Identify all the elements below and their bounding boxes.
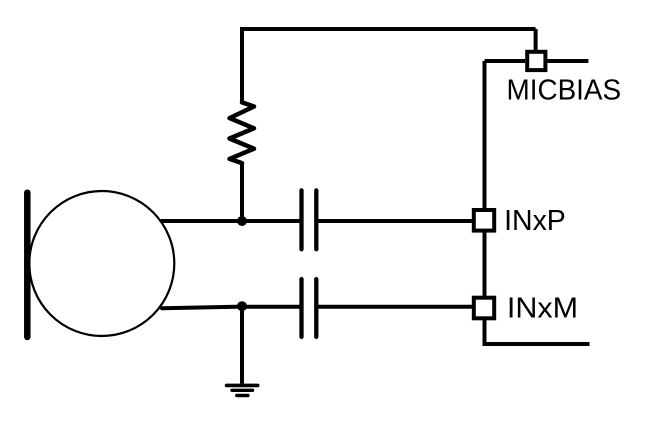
wire: drop down into MICBIAS pin square xyxy=(534,29,538,50)
ground symbol bar 2 xyxy=(232,389,253,392)
wire: capacitor C1 to INxP square xyxy=(316,219,472,223)
microphone MK1 element bar xyxy=(24,193,31,337)
capacitor C2 left plate xyxy=(299,279,303,337)
wire: junction B to capacitor C2 left plate xyxy=(242,305,302,309)
svg-text:MICBIAS: MICBIAS xyxy=(507,74,622,106)
svg-text:INxP: INxP xyxy=(504,205,566,237)
pin INxP square xyxy=(474,210,494,231)
wire: junction A up to resistor R1 bottom xyxy=(240,163,244,221)
pin INxM square xyxy=(474,298,494,319)
wire: MICBIAS square right stub xyxy=(547,59,588,63)
capacitor C1 left plate xyxy=(299,190,303,249)
microphone MK1 body circle xyxy=(29,191,174,336)
capacitor C2 right plate xyxy=(314,279,318,337)
ground symbol bar 3 xyxy=(237,394,248,397)
pin MICBIAS square xyxy=(527,52,545,70)
wire: vertical rail INxP square down to INxM square xyxy=(483,232,487,297)
capacitor C1 right plate xyxy=(314,190,318,249)
node A junction dot (top rail / resistor) xyxy=(237,216,247,226)
wire: resistor R1 top up to top rail corner xyxy=(240,29,244,102)
wire: junction B down to ground xyxy=(240,306,244,384)
wire: INxM square down to bottom stub corner xyxy=(483,319,487,344)
svg-text:INxM: INxM xyxy=(507,293,578,325)
wire: junction A to capacitor C1 left plate xyxy=(242,219,302,223)
wire: mic top output to junction A xyxy=(162,219,242,223)
wire: top rail horizontal to MICBIAS drop xyxy=(240,27,536,31)
wire: mic bottom output to junction B xyxy=(162,307,242,309)
node B junction dot (bottom rail / ground) xyxy=(237,301,247,311)
wire: bottom right stub horizontal xyxy=(483,342,590,346)
wire: vertical rail MICBIAS down to INxP square xyxy=(483,61,487,209)
wire: capacitor C2 to INxM square xyxy=(316,305,472,309)
wire: MICBIAS square left to vertical rail corner xyxy=(485,59,526,63)
ground symbol bar 1 xyxy=(227,384,258,388)
resistor R1 (bias resistor, zigzag) xyxy=(230,102,255,163)
